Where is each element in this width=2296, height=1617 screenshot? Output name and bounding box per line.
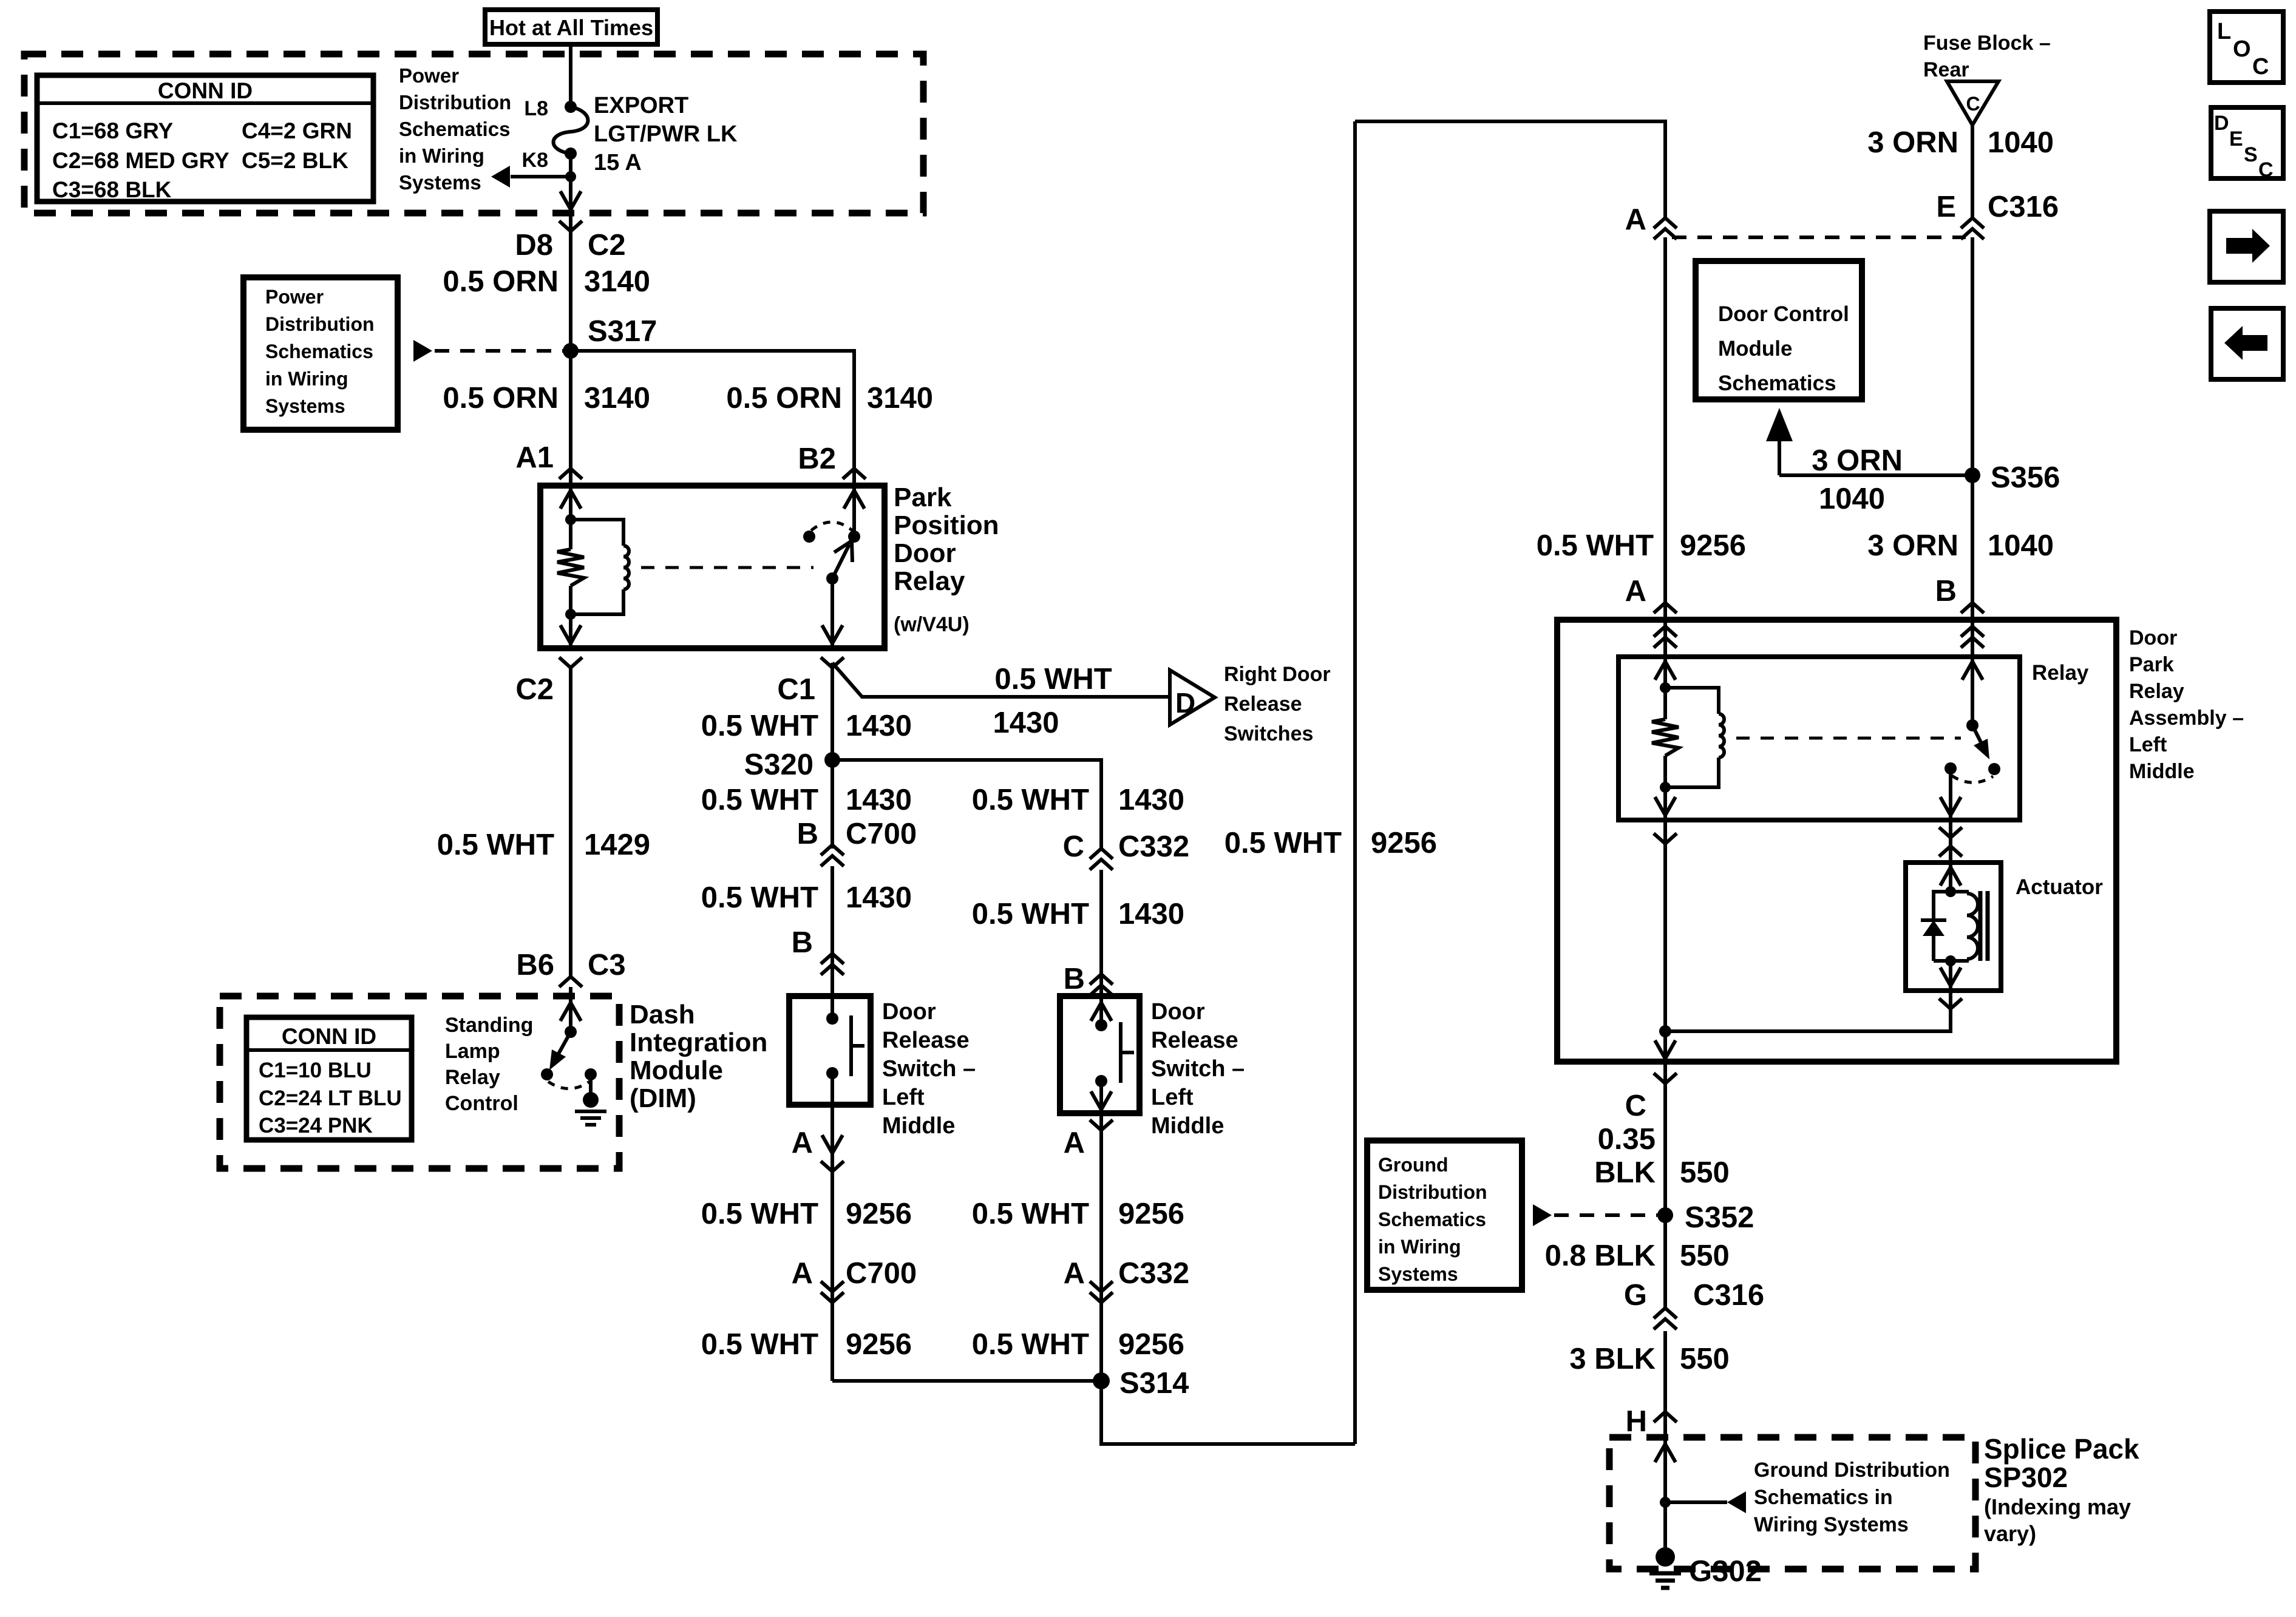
junction dot (assembly common) (1659, 1025, 1671, 1037)
svg-text:9256: 9256 (1118, 1328, 1184, 1361)
splice S352 (1657, 1207, 1673, 1223)
reference arrow up to Door Control Module Schematics (1778, 425, 1781, 475)
svg-text:Switch –: Switch – (1151, 1056, 1245, 1082)
relay switch contact dot left (803, 531, 815, 543)
svg-text:A: A (1625, 203, 1646, 236)
svg-text:Door: Door (894, 538, 956, 568)
inner relay contact dot left (1944, 762, 1957, 775)
svg-text:Schematics: Schematics (1718, 371, 1836, 395)
svg-text:Standing: Standing (445, 1014, 533, 1037)
svg-text:1040: 1040 (1988, 529, 2054, 562)
svg-text:C: C (1966, 93, 1980, 115)
svg-text:Wiring Systems: Wiring Systems (1754, 1513, 1909, 1536)
wire C1 down to S320 (830, 663, 834, 849)
svg-text:550: 550 (1680, 1239, 1730, 1272)
wire S352 to C316 pin G (1663, 1215, 1667, 1308)
svg-text:S352: S352 (1685, 1201, 1754, 1234)
svg-text:D: D (1175, 687, 1195, 719)
svg-text:0.5 WHT: 0.5 WHT (972, 1198, 1089, 1230)
svg-text:Lamp: Lamp (445, 1040, 500, 1063)
splice S356 (1965, 467, 1980, 483)
svg-text:0.5 WHT: 0.5 WHT (701, 1198, 818, 1230)
reference pointer triangle (ground distribution) (1533, 1204, 1552, 1226)
connector chevron at assembly A (1654, 603, 1677, 613)
svg-text:Park: Park (2129, 653, 2174, 676)
sidebar icon DESC box (2211, 107, 2283, 178)
svg-text:(w/V4U): (w/V4U) (894, 613, 970, 636)
svg-text:3 ORN: 3 ORN (1867, 529, 1958, 562)
svg-text:C2=24 LT BLU: C2=24 LT BLU (259, 1086, 402, 1110)
connector chevron below fuse block (569, 213, 572, 255)
connector chevron at splice pack entry (1654, 1412, 1677, 1422)
inner relay contact dot right (1988, 763, 2000, 775)
svg-text:Middle: Middle (882, 1113, 955, 1139)
relay switch pivot dot (826, 572, 838, 585)
svg-text:0.5 WHT: 0.5 WHT (701, 1328, 818, 1361)
connector chevron below switch 2 (1090, 1120, 1113, 1130)
svg-text:B: B (792, 926, 813, 959)
svg-text:in Wiring: in Wiring (265, 368, 348, 390)
svg-text:S320: S320 (744, 748, 813, 781)
wire C316 A down to assembly pin A (1663, 237, 1667, 620)
wire branch C1 to right door release switches (832, 663, 1169, 697)
svg-text:L8: L8 (524, 97, 548, 120)
inner relay dashed travel arc (1952, 776, 1993, 782)
svg-text:3 ORN: 3 ORN (1812, 444, 1903, 477)
svg-text:C700: C700 (846, 1257, 917, 1290)
reference box Door Control Module Schematics (1696, 261, 1862, 399)
svg-text:Systems: Systems (399, 171, 481, 194)
inline connector C316 E double chevron (1961, 218, 1984, 228)
relay node dot top (565, 514, 576, 525)
inline connector C700 double chevron (821, 845, 844, 855)
svg-text:C1: C1 (777, 673, 815, 706)
sidebar icon next-page arrow box (2210, 211, 2283, 282)
svg-text:C2: C2 (588, 229, 626, 262)
splice S317 (563, 343, 579, 359)
actuator diode branch (1934, 892, 1951, 920)
connector chevron pair below inner relay right (1939, 827, 1962, 838)
svg-text:BLK: BLK (1594, 1156, 1656, 1189)
assembly internal connector A double chevron (1663, 620, 1667, 657)
svg-text:C700: C700 (846, 818, 917, 850)
relay B2 input wire and arrow (852, 486, 856, 537)
svg-text:9256: 9256 (846, 1328, 912, 1361)
splice S314 (1093, 1372, 1110, 1389)
svg-text:CONN ID: CONN ID (158, 78, 253, 103)
dashed connector line C316 (1672, 236, 1966, 239)
relay dashed actuation link (641, 566, 813, 569)
inner relay A entry arrow (1663, 657, 1667, 688)
svg-text:9256: 9256 (1118, 1198, 1184, 1230)
connector table CONN ID (fuse block) (37, 75, 373, 202)
svg-text:A1: A1 (515, 441, 554, 474)
svg-text:550: 550 (1680, 1343, 1730, 1375)
switch S Door Release Switch - Left Middle (DIM side) box (789, 996, 871, 1105)
DIM internal ground symbol (575, 1110, 606, 1113)
splice pack junction dot (1660, 1497, 1671, 1508)
svg-text:0.5 WHT: 0.5 WHT (972, 1328, 1089, 1361)
svg-text:C: C (1063, 830, 1084, 863)
svg-text:550: 550 (1680, 1156, 1730, 1189)
svg-text:A: A (792, 1257, 813, 1290)
svg-text:C332: C332 (1118, 830, 1189, 863)
svg-text:1430: 1430 (846, 710, 912, 742)
svg-text:Release: Release (1224, 693, 1302, 716)
inner relay output arrow down (1663, 787, 1667, 820)
connector double chevron at switch 1 B pin (821, 954, 844, 964)
svg-text:Door: Door (2129, 626, 2177, 649)
actuator output arrow (1949, 961, 1952, 991)
wire switch 1 pin A down (830, 1105, 834, 1381)
svg-text:0.5 WHT: 0.5 WHT (1537, 529, 1654, 562)
relay node dot bottom (565, 609, 576, 620)
switch 2 contacts (1095, 1019, 1107, 1031)
splice pack entry arrow (1663, 1437, 1667, 1557)
wire C316 G down to splice pack (1663, 1331, 1667, 1437)
svg-text:CONN ID: CONN ID (282, 1024, 376, 1049)
svg-text:Release: Release (1151, 1028, 1238, 1053)
svg-text:0.5 ORN: 0.5 ORN (443, 382, 559, 415)
svg-text:0.8 BLK: 0.8 BLK (1545, 1239, 1656, 1272)
svg-text:0.5 ORN: 0.5 ORN (443, 265, 559, 298)
svg-text:Relay: Relay (2129, 680, 2184, 703)
svg-text:0.5 WHT: 0.5 WHT (994, 663, 1112, 696)
svg-text:Middle: Middle (2129, 760, 2195, 783)
sidebar icon prev-page arrow box (2211, 308, 2283, 379)
svg-text:B: B (797, 818, 818, 850)
wire S320 branch right to C332 (832, 760, 1101, 849)
svg-text:Assembly –: Assembly – (2129, 707, 2244, 730)
svg-text:Schematics: Schematics (1378, 1209, 1486, 1230)
fuse EXPORT LGT/PWR LK 15A symbol (565, 101, 577, 113)
svg-text:Schematics: Schematics (265, 341, 373, 362)
svg-text:Left: Left (882, 1085, 925, 1110)
svg-text:Door Control: Door Control (1718, 302, 1849, 326)
svg-text:Distribution: Distribution (1378, 1181, 1487, 1203)
wire inner relay to actuator (1949, 820, 1952, 863)
connector chevron at B2 (843, 469, 866, 479)
svg-text:S356: S356 (1991, 461, 2060, 494)
DIM contact dot left (541, 1068, 553, 1080)
svg-text:B: B (1935, 575, 1957, 608)
svg-text:L: L (2217, 19, 2231, 44)
connector chevron below assembly (1654, 1073, 1677, 1083)
svg-text:G302: G302 (1689, 1555, 1762, 1588)
splice pack SP302 dashed box (1609, 1437, 1975, 1569)
svg-text:Release: Release (882, 1028, 970, 1053)
svg-text:0.5 WHT: 0.5 WHT (701, 710, 818, 742)
svg-text:9256: 9256 (1371, 827, 1437, 859)
svg-text:C5=2 BLK: C5=2 BLK (242, 148, 348, 173)
svg-text:Hot at All Times: Hot at All Times (489, 15, 653, 40)
wire inner relay to junction (1663, 820, 1667, 1031)
svg-text:SP302: SP302 (1984, 1462, 2068, 1493)
svg-text:Power: Power (265, 286, 324, 308)
svg-text:Door: Door (882, 999, 936, 1025)
svg-text:0.5 WHT: 0.5 WHT (972, 898, 1089, 931)
svg-text:1430: 1430 (846, 784, 912, 816)
svg-text:(Indexing may: (Indexing may (1984, 1494, 2131, 1519)
svg-text:C: C (2252, 54, 2269, 80)
svg-text:H: H (1626, 1405, 1647, 1438)
switch S Door Release Switch - Left Middle (door side) box (1060, 996, 1140, 1113)
svg-text:Power: Power (399, 64, 459, 87)
inner relay node dot top (1660, 682, 1671, 693)
inner relay resistor zigzag (1663, 688, 1667, 719)
svg-text:Schematics in: Schematics in (1754, 1486, 1893, 1509)
svg-text:1430: 1430 (1118, 784, 1184, 816)
svg-text:O: O (2233, 36, 2251, 62)
junction dot on fuse output (565, 171, 576, 182)
svg-text:Switches: Switches (1224, 722, 1313, 745)
svg-text:0.35: 0.35 (1598, 1123, 1656, 1156)
svg-text:Actuator: Actuator (2016, 875, 2103, 899)
svg-text:Ground: Ground (1378, 1154, 1449, 1176)
svg-text:Systems: Systems (265, 395, 345, 417)
svg-text:0.5 ORN: 0.5 ORN (726, 382, 842, 415)
svg-text:3140: 3140 (584, 382, 650, 415)
svg-text:Ground Distribution: Ground Distribution (1754, 1459, 1950, 1482)
svg-text:3140: 3140 (867, 382, 933, 415)
wire C332 to door release switch right (1099, 870, 1103, 996)
svg-text:B2: B2 (798, 442, 836, 475)
svg-text:1040: 1040 (1988, 126, 2054, 159)
inner relay coil branch (1665, 688, 1719, 714)
off-page connector triangle C (fuse block) (1947, 81, 1999, 125)
actuator entry arrow (1949, 863, 1952, 892)
svg-text:Fuse Block –: Fuse Block – (1923, 32, 2051, 55)
inline connector C316 A double chevron (1654, 218, 1677, 228)
svg-text:C332: C332 (1118, 1257, 1189, 1290)
relay switch output wire to C1 (830, 578, 834, 648)
Fuse Block - Rear dashed outline (24, 54, 923, 213)
svg-text:1429: 1429 (584, 829, 650, 861)
svg-text:S314: S314 (1119, 1367, 1189, 1400)
svg-text:Dash: Dash (630, 1000, 695, 1029)
svg-text:Left: Left (2129, 733, 2167, 756)
switch 1 pin A exit arrow and chevron (822, 1135, 843, 1153)
svg-text:Middle: Middle (1151, 1113, 1224, 1139)
svg-text:Module: Module (1718, 337, 1792, 361)
connector chevron below actuator (1939, 998, 1962, 1009)
connector chevron at DIM entry (559, 977, 582, 987)
connector chevron at A1 (559, 469, 582, 479)
wire assembly C down to S352 (1663, 1062, 1667, 1215)
wire C700 to door release switch left (830, 866, 834, 996)
assembly Door Park Relay Assembly - Left Middle box (1557, 620, 2116, 1062)
svg-text:EXPORT: EXPORT (594, 93, 688, 118)
wire switch1 chain to S314 (832, 1379, 1101, 1383)
svg-text:Switch –: Switch – (882, 1056, 976, 1082)
svg-text:Relay: Relay (894, 566, 965, 596)
svg-text:1430: 1430 (1118, 898, 1184, 931)
reference arrow to Power Distribution Schematics (left) (511, 175, 571, 178)
svg-text:C3=24 PNK: C3=24 PNK (259, 1114, 373, 1137)
connector chevron below relay at C1 (821, 657, 844, 668)
inner relay node dot bottom (1660, 782, 1671, 793)
svg-text:C316: C316 (1988, 191, 2059, 223)
svg-text:Integration: Integration (630, 1028, 767, 1057)
dashed reference line to S352 (1554, 1213, 1657, 1217)
inner relay switch pivot dot (1966, 719, 1978, 731)
svg-text:C4=2 GRN: C4=2 GRN (242, 118, 352, 143)
switch 1 actuator plate (849, 1015, 853, 1076)
inner relay switch arm with arrow (1972, 725, 1986, 753)
DIM internal ground stem and dot (589, 1074, 593, 1095)
svg-text:Systems: Systems (1378, 1263, 1458, 1285)
svg-text:0.5 WHT: 0.5 WHT (972, 784, 1089, 816)
svg-text:9256: 9256 (846, 1198, 912, 1230)
wire riser up the middle (1353, 121, 1357, 1444)
wire fuse to box edge with exit arrow (569, 154, 572, 209)
reference line to ground distribution schematics (1665, 1500, 1727, 1504)
connector chevron below relay at C2 (559, 657, 582, 668)
svg-text:0.5 WHT: 0.5 WHT (437, 829, 554, 861)
inline connector C700 lower double chevron (down) (821, 1281, 844, 1292)
DIM switch pivot dot (565, 1026, 577, 1038)
svg-text:E: E (1936, 191, 1956, 223)
DIM dashed travel arc (548, 1082, 589, 1089)
wire riser top to C316 pin A (1355, 121, 1665, 218)
relay (inner) box (1618, 657, 2020, 820)
relay switch arm with arrow (832, 544, 849, 578)
assembly internal connector B double chevron (1971, 620, 1974, 657)
switch 2 entry arrow (1099, 996, 1103, 1025)
svg-text:Park: Park (894, 483, 952, 512)
actuator coil branch (1951, 892, 1967, 893)
svg-text:vary): vary) (1984, 1521, 2036, 1546)
inline connector C332 chevrons (1090, 849, 1113, 859)
svg-text:0.5 WHT: 0.5 WHT (701, 881, 818, 914)
svg-text:Control: Control (445, 1092, 518, 1115)
svg-text:0.5 WHT: 0.5 WHT (701, 784, 818, 816)
svg-text:Position: Position (894, 510, 999, 540)
inline connector C316 G double chevron (1654, 1308, 1677, 1318)
svg-text:S317: S317 (588, 315, 657, 348)
svg-text:1430: 1430 (846, 881, 912, 914)
svg-text:1040: 1040 (1819, 483, 1885, 515)
resistor (relay suppression) zigzag (569, 520, 572, 549)
svg-text:Splice Pack: Splice Pack (1984, 1433, 2139, 1465)
svg-text:LGT/PWR LK: LGT/PWR LK (594, 121, 738, 147)
svg-text:(DIM): (DIM) (630, 1083, 696, 1113)
svg-text:1430: 1430 (993, 707, 1059, 739)
relay switch dashed travel arc (811, 522, 852, 531)
svg-text:S: S (2244, 143, 2258, 166)
wire C2 down to B6 (569, 668, 572, 978)
svg-text:E: E (2229, 127, 2243, 151)
actuator box (1906, 863, 2001, 991)
wire S314 down and right to riser (1101, 1381, 1355, 1444)
inline connector C332 lower double chevron (down) (1090, 1281, 1113, 1292)
svg-text:Right Door: Right Door (1224, 663, 1331, 686)
svg-text:C1=68 GRY: C1=68 GRY (52, 118, 173, 143)
wire S317 right branch to relay pin B2 (571, 351, 854, 486)
connector chevron at assembly B (1961, 603, 1984, 613)
node Hot at All Times label box (485, 10, 657, 44)
DIM contact dot right (585, 1068, 597, 1080)
assembly exit arrow (1663, 1031, 1667, 1062)
svg-text:in Wiring: in Wiring (399, 144, 484, 167)
svg-text:Distribution: Distribution (399, 91, 511, 114)
svg-text:A: A (792, 1127, 813, 1159)
svg-text:C: C (1625, 1090, 1646, 1122)
reference box Ground Distribution Schematics in Wiring Systems (1367, 1141, 1522, 1290)
relay switch contact dot right (848, 531, 860, 543)
svg-text:G: G (1624, 1279, 1647, 1312)
DIM relay contact arm with arrow (552, 1032, 571, 1065)
svg-text:3140: 3140 (584, 265, 650, 298)
connector chevron below inner relay left (1654, 833, 1677, 844)
reference box Power Distribution Schematics in Wiring Systems (left) (243, 277, 398, 430)
sidebar icon LOC box (2210, 12, 2283, 83)
DIM entry arrow (569, 996, 572, 1032)
wire switch 2 pin A down to S314 (1099, 1113, 1103, 1381)
reference elbow wire to S356 (1779, 473, 1972, 477)
relay coil input arrow A1 (569, 486, 572, 520)
svg-text:Left: Left (1151, 1085, 1194, 1110)
svg-text:3 BLK: 3 BLK (1569, 1343, 1656, 1375)
wire D8 to S317 (569, 255, 572, 351)
actuator core bars (1978, 891, 1983, 961)
svg-text:15 A: 15 A (594, 150, 642, 175)
actuator node dot top (1945, 886, 1956, 897)
svg-text:D8: D8 (515, 229, 553, 262)
svg-text:0.5 WHT: 0.5 WHT (1224, 827, 1342, 859)
wire actuator to junction (1665, 991, 1951, 1031)
svg-text:Module: Module (630, 1056, 723, 1085)
svg-text:D: D (2214, 112, 2229, 135)
svg-text:Door: Door (1151, 999, 1205, 1025)
svg-text:C3=68 BLK: C3=68 BLK (52, 177, 172, 202)
wire S317 to relay pin A1 (569, 351, 572, 486)
svg-text:C2=68 MED GRY: C2=68 MED GRY (52, 148, 229, 173)
svg-text:9256: 9256 (1680, 529, 1746, 562)
svg-text:C316: C316 (1693, 1279, 1764, 1312)
svg-text:3 ORN: 3 ORN (1867, 126, 1958, 159)
module DIM dashed box (220, 996, 619, 1168)
svg-text:Relay: Relay (2032, 661, 2089, 685)
svg-text:Rear: Rear (1923, 58, 1969, 81)
switch 1 wire and contacts (830, 996, 834, 1019)
ground G302 symbol (1649, 1571, 1681, 1576)
svg-text:C1=10 BLU: C1=10 BLU (259, 1059, 372, 1082)
svg-text:A: A (1625, 575, 1646, 608)
connector double chevron at switch 2 B pin (1090, 974, 1113, 985)
off-page connector triangle D (1170, 670, 1215, 725)
inner relay output wire from contact (1949, 768, 1952, 820)
relay coil output arrow to C2 (569, 614, 572, 648)
svg-text:C: C (2258, 158, 2274, 181)
svg-text:B6: B6 (516, 949, 554, 981)
svg-text:Relay: Relay (445, 1066, 500, 1089)
wire from Hot at All Times down to fuse block (569, 44, 572, 107)
inner relay dashed actuation link (1736, 737, 1961, 740)
svg-text:A: A (1064, 1127, 1085, 1159)
switch 2 actuator plate (1119, 1022, 1123, 1083)
actuator node dot bottom (1945, 955, 1956, 966)
wire C316 E down to S356 (1971, 237, 1974, 620)
svg-text:Schematics: Schematics (399, 118, 510, 140)
svg-text:C3: C3 (588, 949, 626, 981)
ground G302 terminal dot (1656, 1547, 1675, 1567)
svg-text:B: B (1064, 963, 1085, 995)
svg-text:C2: C2 (515, 673, 554, 706)
svg-text:in Wiring: in Wiring (1378, 1236, 1461, 1258)
svg-text:K8: K8 (522, 149, 548, 172)
splice S320 (824, 752, 840, 768)
